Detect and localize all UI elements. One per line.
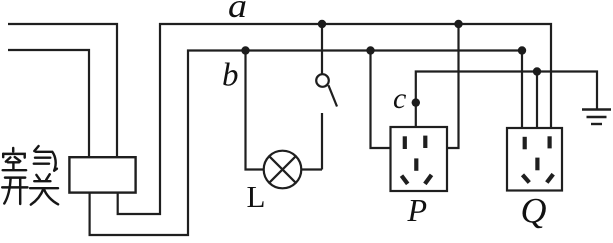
junction: a to switch [318,20,326,28]
wire: earth drop to socket Q [536,72,538,129]
junction: b to socket P left [366,46,374,54]
socket P slot lower-right [425,175,432,184]
wire: switch lower lead [321,113,323,170]
socket P body [391,127,448,191]
wire: breaker live output to node a riser [118,23,160,214]
svg-text:Q: Q [521,191,547,231]
wire: live bus a [159,24,551,128]
socket Q body [507,128,562,191]
socket P slot upper-right [423,136,427,148]
socket P slot earth-center [414,158,418,170]
breaker 空气开关 box [69,157,135,192]
wire: socket P right lead from a [447,23,459,148]
breaker label char 空 [3,148,26,170]
node c dot [412,98,420,106]
lamp L cross stroke 1 [269,156,296,183]
junction: b corner to socket Q [518,46,526,54]
lamp L cross stroke 2 [269,156,296,183]
wire: lamp branch from node on b [246,50,264,170]
socket Q slot lower-left [523,175,530,183]
wire: earth wire from node c to ground [416,72,597,127]
svg-text:P: P [407,192,428,228]
switch S pivot circle [316,74,329,87]
wire: breaker neutral output to node b riser [90,50,188,236]
switch S blade [328,85,337,106]
svg-text:L: L [247,179,266,214]
socket Q slot lower-right [547,174,553,182]
svg-text:b: b [222,57,239,93]
ground symbol bar 3 [591,123,602,125]
wire: neutral bus b [187,51,522,129]
wire: incoming live from street [8,24,117,158]
socket Q slot upper-right [547,136,551,148]
svg-text:c: c [393,82,406,115]
ground symbol bar 1 [582,108,611,110]
junction: earth wire to socket Q [533,67,541,75]
ground symbol bar 2 [587,116,607,118]
lamp L circle [264,151,302,189]
wire: socket P left lead from b [371,50,391,149]
socket P slot lower-left [402,176,408,184]
breaker label char 开 [2,178,27,204]
svg-text:a: a [228,0,247,25]
socket Q slot earth-center [535,158,539,171]
breaker label char 气 [34,146,57,171]
breaker label char 关 [30,174,58,204]
wire: switch upper lead [321,24,323,74]
socket Q slot upper-left [523,137,527,150]
wire: lamp right lead to switch [301,168,322,170]
junction: a to socket P right [454,20,462,28]
socket P slot upper-left [403,136,407,149]
wire: incoming neutral from street [8,50,89,158]
junction: b to lamp [241,46,249,54]
